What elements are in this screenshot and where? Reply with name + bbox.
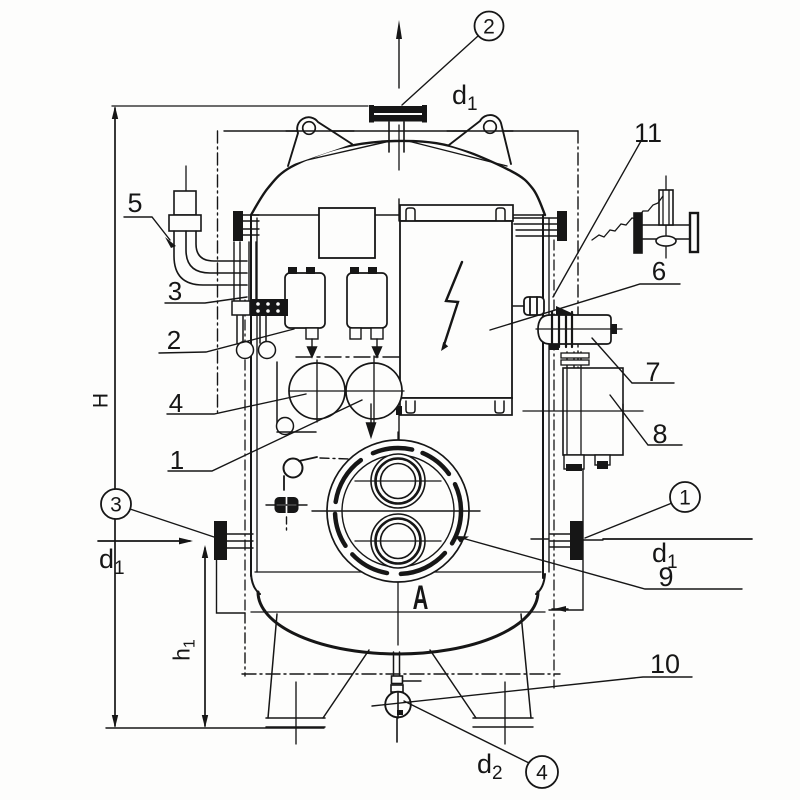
pipe u-bends below block [237, 316, 276, 359]
jacket left lower dash-dot [244, 613, 246, 676]
separator item8 [523, 352, 643, 471]
sight glass rho symbol [284, 457, 351, 490]
nozzle centerline left vertical dash-dot [244, 300, 246, 610]
d1 left arrow line [98, 538, 193, 545]
bottom head tangent line [251, 611, 545, 613]
lug base strip left [294, 142, 388, 164]
balloon circle 3 [101, 489, 131, 519]
nozzle centerline right vertical dash-dot [553, 240, 555, 688]
svg-text:8: 8 [652, 419, 667, 449]
balloon circle 4 [526, 756, 558, 788]
svg-text:1: 1 [170, 445, 184, 475]
svg-text:3: 3 [110, 494, 122, 517]
balloon 3 leader [130, 509, 214, 537]
valve block item2/3 [232, 299, 288, 316]
position mark symbol [266, 495, 307, 530]
weld arrow right shell [552, 606, 568, 612]
bottom head bold arc [251, 574, 260, 594]
bottom port [371, 514, 425, 568]
manhole assembly [312, 440, 480, 582]
svg-text:4: 4 [169, 388, 183, 418]
muffler item7 [536, 306, 622, 350]
balloon circle 2 [475, 12, 504, 41]
svg-text:9: 9 [658, 562, 673, 592]
leader label 4 [167, 394, 306, 414]
valve box 2 [347, 267, 387, 357]
discharge arrow under cylinder2 [367, 404, 376, 437]
jacket outline top edge [224, 130, 578, 132]
leader label 2 [159, 329, 294, 353]
lifting lug right [449, 115, 511, 164]
electric panel with mounting strips [400, 205, 513, 415]
left leg [266, 614, 369, 744]
lower right nozzle (1) [550, 521, 603, 560]
leader label 8 [610, 395, 682, 445]
left small box on shell top [319, 208, 375, 258]
top port [371, 454, 425, 508]
H dimension line [112, 106, 118, 728]
lightning bolt [444, 262, 462, 345]
leader label 7 [592, 338, 674, 383]
shell right wall [542, 215, 544, 578]
vessel centerline manhole [397, 432, 399, 645]
svg-text:5: 5 [127, 188, 142, 218]
leader label 6 [490, 284, 680, 330]
lug base strip right [410, 142, 507, 167]
leader label 10 [372, 677, 692, 706]
shell left wall [250, 215, 252, 576]
svg-text:2: 2 [483, 16, 495, 39]
pipes from left dome nozzle down [234, 242, 256, 300]
svg-text:7: 7 [645, 357, 660, 387]
squiggle break line to valve11 [592, 196, 663, 240]
H top reference line [112, 105, 368, 107]
drain assembly bottom [385, 652, 421, 742]
h1 dimension line [202, 545, 208, 728]
right leg [430, 614, 533, 744]
legs centerline dash-dot [242, 673, 560, 675]
jacket left edge (solid lower) [217, 560, 246, 613]
svg-text:2: 2 [167, 325, 181, 355]
leader label 9 [455, 536, 742, 589]
svg-text:6: 6 [652, 256, 666, 286]
svg-text:11: 11 [634, 118, 662, 148]
jacket right edge solid lower [549, 452, 583, 610]
svg-text:1: 1 [679, 487, 691, 510]
right dome nozzle [514, 211, 567, 241]
svg-text:4: 4 [536, 762, 548, 785]
dome (top head) [251, 141, 545, 215]
leader label 5 [124, 217, 176, 248]
bracket under circles [277, 362, 317, 435]
jacket right edge dash-dot [577, 131, 579, 452]
fitting item6 on right shell [513, 297, 544, 315]
vessel centerline top with arrow [396, 20, 402, 170]
pipe elbow item5 [169, 166, 247, 285]
svg-text:H: H [90, 393, 113, 408]
bottom base line [106, 727, 324, 729]
left dome nozzle [233, 211, 259, 241]
balloon 1 leader [585, 503, 672, 538]
svg-text:10: 10 [650, 649, 680, 679]
shell top seam line [251, 214, 543, 216]
top flange nozzle [369, 105, 427, 152]
lifting lug left [288, 117, 352, 166]
leader label 3 [165, 297, 247, 303]
svg-text:3: 3 [168, 276, 182, 306]
jacket left edge (dash-dot upper) [217, 131, 219, 412]
leader label 11 [553, 141, 641, 297]
balloon 2 leader [402, 36, 478, 105]
valve box 1 [285, 267, 325, 357]
dash line under boxes [296, 356, 400, 358]
valve item11 top right [634, 176, 698, 258]
leader label 1 [168, 400, 362, 471]
crosshairs [355, 480, 441, 482]
svg-text:A: A [413, 579, 429, 617]
shell lower seam line [255, 571, 541, 573]
lower left nozzle (3) [214, 521, 253, 560]
compressor cylinder circles [289, 356, 404, 426]
balloon circle 1 [670, 482, 700, 512]
panel divider line to manhole [398, 199, 400, 221]
left foot plate [266, 726, 325, 728]
jacket line across lugs [286, 130, 354, 132]
balloon 4 leader [404, 701, 529, 763]
d1 right line [603, 538, 752, 540]
